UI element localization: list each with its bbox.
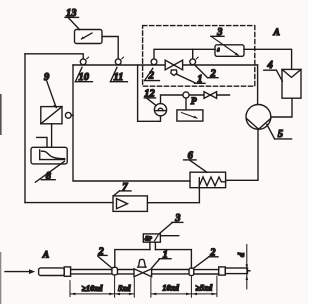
svg-text:5: 5 bbox=[278, 129, 283, 140]
pipe wall bbox=[118, 270, 135, 274]
pressure point P bbox=[183, 92, 189, 98]
label 5 bbox=[267, 124, 292, 140]
svg-text:≥5xd: ≥5xd bbox=[195, 284, 213, 293]
svg-text:10xd: 10xd bbox=[162, 284, 179, 293]
dimension texts bbox=[82, 284, 214, 293]
pipe wall upstream bbox=[71, 270, 112, 274]
dashed enclosure bbox=[143, 26, 255, 87]
label 10 bbox=[75, 67, 92, 83]
wire: box 9 to recorder 8 bbox=[51, 124, 53, 148]
heater box 6 bbox=[190, 172, 226, 188]
label 6 bbox=[184, 151, 207, 173]
impulse riser left bbox=[115, 250, 150, 268]
label 4 bbox=[264, 60, 283, 82]
label 2 (right fitting) bbox=[194, 248, 218, 268]
dp recorder box 3 bbox=[215, 45, 244, 57]
flow arrow bbox=[5, 271, 30, 273]
label 1 (valve) bbox=[176, 74, 205, 85]
pressure tap fitting 2 (right) bbox=[189, 268, 194, 276]
pressure tap fitting 2 (left) bbox=[112, 267, 118, 275]
control valve 1 on pipe bbox=[134, 269, 143, 277]
wire: box 13 to sensor 11 bbox=[102, 37, 118, 59]
wire: main header line bbox=[73, 64, 258, 66]
tap circle 2 (left) bbox=[151, 59, 157, 65]
junction wire: header to gauge 12 bbox=[138, 65, 161, 121]
pipe collar left bbox=[64, 267, 70, 276]
sensor circle 11 bbox=[115, 59, 121, 65]
label 2 (right tap) bbox=[196, 66, 218, 80]
label 12 bbox=[144, 89, 156, 106]
svg-text:A: A bbox=[273, 28, 280, 38]
dimension extension lines bbox=[70, 276, 217, 297]
pipe wall bbox=[152, 270, 189, 274]
three-way valve 1 bbox=[165, 60, 174, 70]
impulse wire: taps 2-2 up to dp recorder 3 bbox=[154, 49, 215, 59]
wire: inner drop and run to heater 6 bbox=[73, 65, 190, 181]
gauge 12 bbox=[154, 104, 166, 116]
svg-text:5xd: 5xd bbox=[118, 284, 131, 293]
valve actuator bell bbox=[138, 266, 147, 268]
wire: box 3 to cooler 4 bbox=[244, 49, 292, 69]
label 1 (pipe valve) bbox=[152, 250, 171, 268]
svg-text:δP: δP bbox=[145, 236, 153, 243]
impulse wire branch to right tap 2 bbox=[192, 49, 194, 59]
signal stub from transmitter bbox=[160, 235, 178, 237]
wire: outer loop top (left box top edge to sensor 10) bbox=[25, 54, 83, 59]
valve on P line bbox=[204, 92, 210, 99]
instrument box 13 bbox=[75, 30, 103, 44]
wire: cooler 4 to pump 5 bbox=[271, 98, 292, 117]
tap circle 2 (right) bbox=[190, 59, 196, 65]
pipe diameter dimension d bbox=[246, 245, 248, 289]
wire: step branch to recorder 8 bbox=[37, 137, 47, 147]
pipe wall bbox=[194, 270, 219, 274]
dimension line >=10xd bbox=[70, 293, 217, 295]
svg-text:P: P bbox=[191, 97, 197, 107]
pipe entrance section bbox=[39, 268, 65, 276]
impulse stubs from transmitter bbox=[150, 242, 156, 249]
label 13 bbox=[65, 8, 80, 29]
label 8 bbox=[35, 161, 64, 182]
pipe collar right bbox=[219, 267, 226, 275]
tap circle at box 9 bbox=[65, 112, 71, 118]
label 11 bbox=[110, 67, 127, 83]
wire: outer loop left vertical bbox=[24, 54, 26, 203]
label 2 (left tap) bbox=[145, 68, 160, 81]
indicator box under P bbox=[177, 110, 203, 121]
recorder box 8 bbox=[31, 147, 67, 164]
wire: heater 6 to pump 7 bbox=[148, 188, 200, 203]
scan smudge left edge bbox=[0, 94, 2, 135]
pipe exit section bbox=[225, 268, 247, 274]
sensor circle 10 bbox=[80, 59, 86, 65]
label 7 bbox=[114, 182, 131, 196]
svg-text:A: A bbox=[42, 250, 49, 260]
wire: header down to pump 5 bbox=[257, 65, 259, 105]
wire: pump 5 down to heater 6 bbox=[226, 129, 258, 180]
svg-text:δ: δ bbox=[217, 49, 220, 54]
label 9 bbox=[44, 72, 56, 108]
pump box 7 bbox=[113, 196, 147, 212]
wire: gauge 12 to P line bbox=[161, 95, 230, 104]
dp transmitter box (item 3) bbox=[143, 234, 160, 242]
sensor box 9 bbox=[41, 107, 62, 124]
wire: outer loop bottom to pump 7 bbox=[25, 202, 113, 204]
svg-text:d: d bbox=[236, 252, 246, 257]
svg-text:4: 4 bbox=[267, 60, 273, 71]
label 3 with leader through box bbox=[211, 27, 239, 55]
label 3 (transmitter) bbox=[159, 213, 183, 234]
impulse riser right bbox=[155, 250, 191, 269]
pump 5 bbox=[246, 105, 271, 130]
cooler box 4 bbox=[282, 69, 301, 98]
svg-text:≥10xd: ≥10xd bbox=[82, 284, 104, 293]
label 2 (left fitting) bbox=[98, 246, 113, 268]
